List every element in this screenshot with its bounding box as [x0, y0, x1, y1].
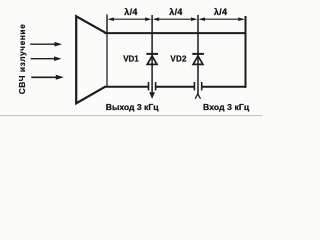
svg-text:λ/4: λ/4 [169, 7, 182, 17]
svg-text:Вход 3 кГц: Вход 3 кГц [203, 102, 250, 112]
svg-text:VD1: VD1 [123, 55, 139, 64]
svg-text:VD2: VD2 [170, 55, 187, 64]
svg-text:λ/4: λ/4 [124, 7, 137, 17]
svg-text:Выход 3 кГц: Выход 3 кГц [106, 102, 159, 112]
svg-text:λ/4: λ/4 [214, 7, 227, 17]
svg-text:СВЧ излучение: СВЧ излучение [17, 24, 27, 95]
